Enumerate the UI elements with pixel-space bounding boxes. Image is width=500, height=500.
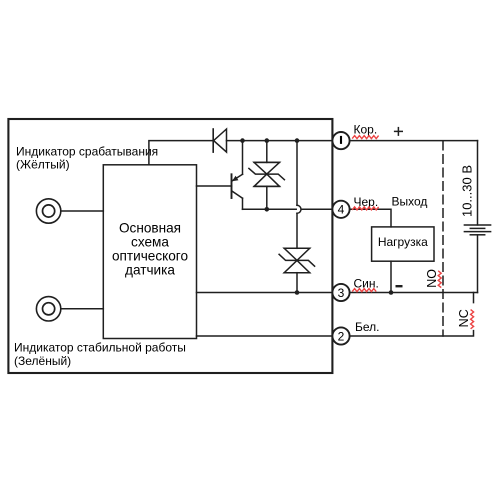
junction dot TVS1 bottom <box>265 207 270 212</box>
battery plate long 1 <box>464 224 490 226</box>
TVS2 bottom lead <box>296 273 298 293</box>
transistor emitter arrowhead <box>232 176 239 181</box>
svg-text:датчика: датчика <box>125 263 175 278</box>
indicator LED1 (yellow) symbol <box>36 199 60 223</box>
squiggle right of NO <box>438 271 441 288</box>
diode D1 triangle <box>214 129 227 152</box>
svg-text:Бел.: Бел. <box>355 320 380 334</box>
svg-text:схема: схема <box>131 235 169 250</box>
TVS1 top lead <box>266 141 268 163</box>
TVS2 upper triangle <box>284 248 310 260</box>
battery plate short 2 <box>470 234 484 236</box>
TVS1 lower triangle <box>254 174 279 186</box>
wire terminal 1 to supply right rail <box>350 140 478 142</box>
junction dot load bottom <box>389 290 394 295</box>
wire collector lead down <box>242 198 244 209</box>
dashed NO/NC selector line <box>442 141 444 336</box>
wire terminal 3 to battery minus <box>350 292 478 294</box>
transistor Q1 emitter diagonal <box>232 174 243 181</box>
junction dot TVS2 bottom <box>295 290 300 295</box>
squiggle under Кор <box>352 136 378 139</box>
TVS1 middle zener bar <box>249 168 285 179</box>
svg-text:Нагрузка: Нагрузка <box>378 235 428 249</box>
wire battery negative lead <box>477 235 479 293</box>
wire LED1 to inner box <box>61 210 104 212</box>
svg-text:(Жёлтый): (Жёлтый) <box>16 158 70 172</box>
terminal 1 number <box>340 136 342 144</box>
wire riser inner box top to supply rail <box>149 141 213 165</box>
squiggle under Чер <box>352 207 378 210</box>
svg-text:3: 3 <box>338 286 345 300</box>
sensor housing outer box <box>8 119 332 373</box>
TVS2 middle zener bar <box>279 254 315 266</box>
squiggle right of NC <box>471 310 474 329</box>
wire TVS2 branch lower vertical <box>296 213 298 248</box>
squiggle under Син <box>352 289 376 292</box>
wire diode to terminal 1 <box>227 140 333 142</box>
junction dot transistor branch <box>240 138 245 143</box>
svg-text:NC: NC <box>457 309 471 327</box>
wire output row right segment to terminal 4 <box>302 208 333 210</box>
svg-text:оптического: оптического <box>112 249 188 264</box>
terminal 2 circle <box>332 327 349 344</box>
terminal 4 circle <box>332 201 349 218</box>
battery plate short 1 <box>470 227 484 229</box>
svg-text:NO: NO <box>425 269 439 288</box>
svg-text:Индикатор срабатывания: Индикатор срабатывания <box>16 145 158 159</box>
svg-text:Кор.: Кор. <box>354 122 378 136</box>
wire terminal 2 white lead with NC stub <box>350 331 474 336</box>
terminal 3 circle <box>332 284 349 301</box>
junction dot TVS2 top <box>295 138 300 143</box>
svg-text:Основная: Основная <box>119 220 181 235</box>
diode D1 cathode bar <box>212 129 214 152</box>
transistor Q1 base bar <box>231 174 233 198</box>
TVS2 top bar <box>284 247 310 249</box>
wire TVS2 branch upper vertical <box>296 141 298 206</box>
transistor Q1 collector diagonal <box>232 191 243 198</box>
wire transistor emitter lead up <box>242 141 244 175</box>
svg-text:Индикатор стабильной работы: Индикатор стабильной работы <box>14 341 186 355</box>
wire hop over output row <box>297 205 301 213</box>
svg-text:10...30 В: 10...30 В <box>459 165 474 217</box>
battery plate long 2 <box>464 231 490 233</box>
TVS2 bottom bar <box>284 272 310 274</box>
main circuit inner box <box>103 165 196 339</box>
wire terminal 4 to load <box>350 209 391 227</box>
transistor Q1 base lead <box>197 185 232 187</box>
wire load bottom to minus row <box>390 261 392 292</box>
terminal 1 circle <box>332 132 349 149</box>
TVS1 upper triangle <box>254 162 279 174</box>
wire LED2 to inner box <box>61 308 104 310</box>
TVS1 bottom lead <box>266 186 268 209</box>
wire minus row inside box <box>197 292 333 294</box>
label plus sign <box>394 127 403 136</box>
svg-text:Син.: Син. <box>354 277 379 291</box>
wire battery positive lead <box>477 141 479 225</box>
TVS2 lower triangle <box>284 260 310 272</box>
load box <box>372 227 434 261</box>
TVS1 top bar <box>254 161 279 163</box>
svg-text:Выход: Выход <box>392 194 428 208</box>
svg-text:4: 4 <box>338 203 345 217</box>
wire output row left segment <box>243 208 297 210</box>
junction dot TVS1 top <box>265 138 270 143</box>
wire white lead row inside box <box>197 335 333 337</box>
indicator LED2 (green) symbol <box>36 297 60 321</box>
wire NC stub below minus row <box>473 293 475 303</box>
label minus bold dash <box>396 285 403 287</box>
svg-text:2: 2 <box>338 329 345 343</box>
svg-text:(Зелёный): (Зелёный) <box>14 354 71 368</box>
TVS1 bottom bar <box>254 185 279 187</box>
